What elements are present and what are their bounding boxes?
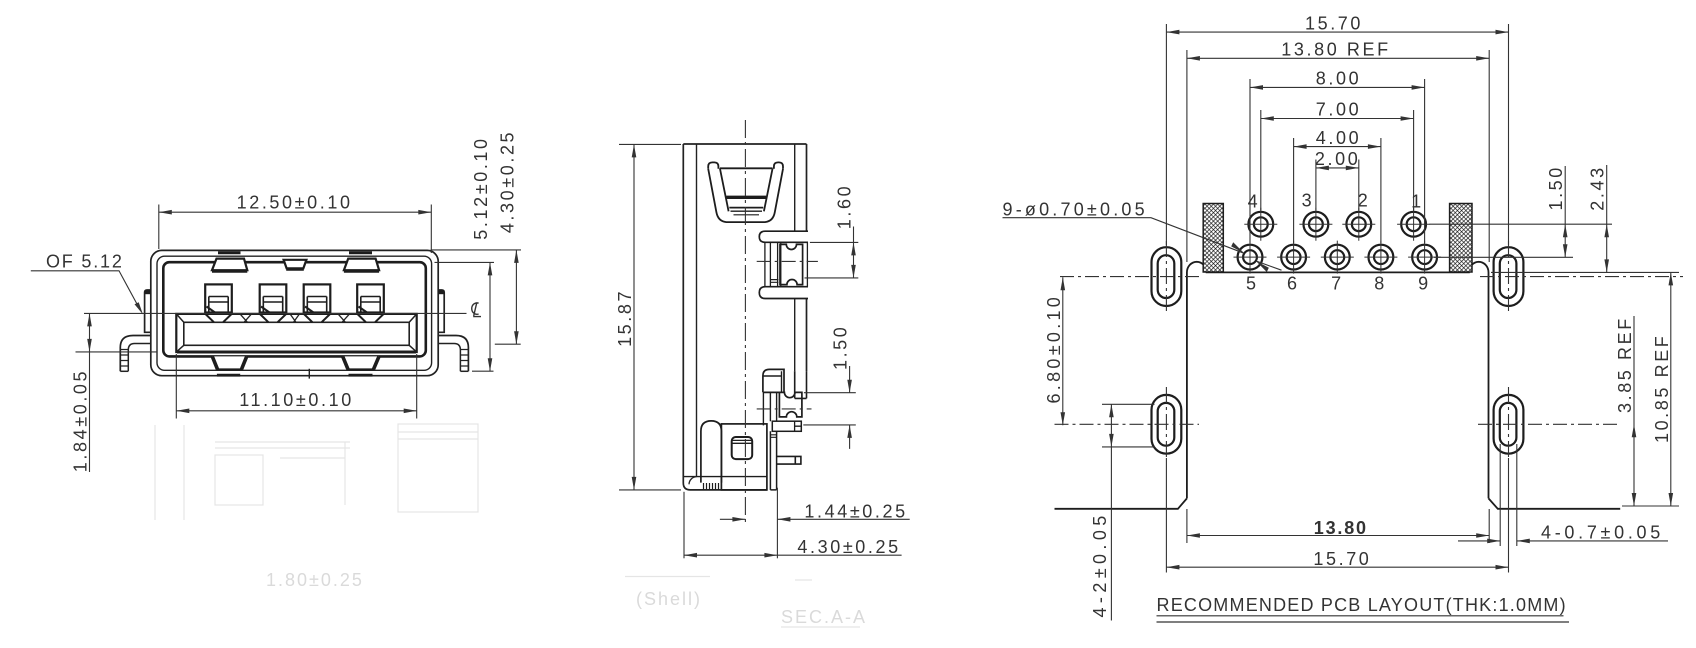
- svg-text:3: 3: [1302, 191, 1315, 211]
- body right edge outer: [806, 144, 808, 371]
- svg-text:1.84±0.05: 1.84±0.05: [71, 369, 91, 472]
- leader OF 5.12: [31, 271, 141, 311]
- base knurl ticks: [704, 483, 719, 490]
- bottom tab 1: [212, 356, 246, 369]
- leader 9-dia: [1003, 218, 1282, 271]
- dim 2.00 line: [1316, 167, 1359, 169]
- arrows 13.80 REF: [1187, 56, 1200, 61]
- ext lines 8.00: [1250, 79, 1425, 243]
- svg-text:2.00: 2.00: [1315, 149, 1360, 169]
- svg-text:13.80: 13.80: [1314, 518, 1368, 538]
- CL symbol: [472, 303, 481, 317]
- svg-text:1.50: 1.50: [1546, 165, 1566, 210]
- svg-text:11.10±0.10: 11.10±0.10: [239, 390, 354, 410]
- svg-text:3.85 REF: 3.85 REF: [1615, 316, 1635, 413]
- dim 4.30 extension line: [495, 343, 521, 345]
- mount foot left: [120, 336, 151, 372]
- svg-text:15.70: 15.70: [1313, 549, 1371, 569]
- clip2 left tab: [763, 369, 784, 392]
- svg-text:10.85 REF: 10.85 REF: [1652, 334, 1672, 443]
- bottom shell dash right: [349, 374, 373, 377]
- PCB LAYOUT VIEW: [1055, 204, 1621, 509]
- dim 1.84 extension line: [76, 351, 158, 353]
- arrows 15.70 top: [1166, 30, 1179, 35]
- clip1 top pill: [759, 231, 808, 242]
- arrows 8.00: [1250, 85, 1263, 90]
- body top edge: [683, 143, 806, 145]
- arrows 2.00: [1316, 166, 1329, 171]
- clip1 step lines: [770, 280, 778, 283]
- svg-text:6: 6: [1287, 273, 1300, 293]
- clip1 verticals: [765, 242, 808, 286]
- centerline mid ovals: [1055, 423, 1621, 425]
- arrows 1.44 (outside): [732, 517, 745, 522]
- latch cup band: [727, 196, 767, 199]
- SIDE DIMENSIONS: [619, 144, 910, 558]
- svg-text:7.00: 7.00: [1316, 100, 1361, 120]
- dim 3.85 line: [1633, 316, 1635, 506]
- pin 7 hole: [1321, 241, 1354, 274]
- side tab right: [438, 290, 444, 332]
- centerline top ovals vertical: [1166, 241, 1508, 315]
- arrow OF leader: [135, 302, 144, 314]
- svg-text:4.30±0.25: 4.30±0.25: [497, 130, 517, 233]
- board edge chamfer left: [1055, 498, 1187, 508]
- arrows 4.00: [1294, 144, 1307, 149]
- svg-text:13.80 REF: 13.80 REF: [1281, 40, 1390, 60]
- dim 6.80 line: [1062, 277, 1064, 425]
- centerline top ovals: [1060, 276, 1683, 278]
- ghost marks (faint print-through): [155, 424, 860, 627]
- top shell dash left: [218, 251, 241, 254]
- latch cup bottom lines: [729, 207, 763, 209]
- contact pin 1: [205, 284, 232, 312]
- arrows 2.43: [1604, 224, 1609, 237]
- arrows 12.50: [159, 210, 172, 215]
- ext lines 7.00: [1261, 110, 1414, 211]
- svg-text:4-0.7±0.05: 4-0.7±0.05: [1541, 522, 1664, 542]
- svg-text:9: 9: [1418, 273, 1431, 293]
- svg-text:1: 1: [1411, 192, 1424, 212]
- svg-text:2: 2: [1358, 191, 1371, 211]
- svg-text:1.50: 1.50: [831, 325, 851, 370]
- dim 7.00 line: [1261, 118, 1414, 120]
- arrows 1.50s (outside): [847, 380, 852, 393]
- tongue inner bevel: [184, 322, 409, 345]
- dim 4.30s extension line: [683, 492, 685, 559]
- top shell dash right: [349, 251, 372, 254]
- svg-text:4.00: 4.00: [1316, 128, 1361, 148]
- pin 3 hole: [1299, 208, 1332, 241]
- arrows 9-dia leader: [1231, 242, 1244, 253]
- base inner corner: [689, 477, 697, 485]
- svg-text:12.50±0.10: 12.50±0.10: [237, 193, 353, 213]
- svg-text:7: 7: [1331, 273, 1344, 293]
- dim 1.50s line: [849, 366, 851, 449]
- svg-text:1.60: 1.60: [835, 184, 855, 229]
- dim 13.80 REF line: [1187, 57, 1489, 59]
- arrows 10.85: [1669, 272, 1674, 285]
- base line: [684, 476, 767, 478]
- clip1 bottom pill: [759, 287, 808, 299]
- top tab 1: [212, 259, 247, 272]
- dim 12.50 extension lines: [159, 205, 432, 254]
- dim 1.60 extension lines: [805, 242, 859, 278]
- shell outer rect: [151, 250, 438, 375]
- dim 4.30s line: [684, 554, 902, 556]
- arrows 15.87: [632, 144, 637, 157]
- clip1 cavity: [780, 244, 803, 284]
- pin 4 hole: [1244, 208, 1277, 241]
- arrows 7.00: [1261, 116, 1274, 121]
- dim 1.44 line: [720, 518, 910, 520]
- dim 5.12 line: [489, 262, 491, 371]
- arrows 4.30: [514, 250, 519, 263]
- contact pin 2: [260, 284, 287, 312]
- svg-text:OF 5.12: OF 5.12: [46, 252, 124, 272]
- pin 5 hole: [1234, 241, 1267, 274]
- dim 15.87 extension lines: [619, 144, 681, 490]
- tongue outer: [176, 314, 416, 352]
- ext lines 4.00: [1294, 138, 1381, 243]
- dome: [701, 421, 722, 483]
- ext line board edge right: [1491, 271, 1679, 273]
- dim 4-0.7 line: [1458, 540, 1668, 542]
- dim 13.80 bottom line: [1187, 535, 1489, 537]
- dim 1.50p line: [1564, 166, 1566, 257]
- clip2 cavity: [763, 392, 802, 417]
- arrows 11.10: [176, 409, 189, 414]
- shell middle rect: [157, 256, 432, 370]
- svg-text:8: 8: [1374, 273, 1387, 293]
- svg-text:6.80±0.10: 6.80±0.10: [1044, 294, 1064, 404]
- dim 11.10 extension lines: [176, 354, 416, 419]
- centerline mid ovals vertical: [1166, 387, 1508, 458]
- arrows 6.80: [1061, 277, 1066, 290]
- dim 12.50 line: [159, 211, 432, 213]
- latch cup outer sides: [708, 169, 783, 222]
- title underline: [1157, 616, 1570, 622]
- svg-text:4: 4: [1248, 192, 1261, 212]
- ext lines slot width: [1500, 444, 1517, 546]
- pin strip: [770, 431, 776, 490]
- svg-text:(Shell): (Shell): [636, 589, 702, 609]
- latch cup inner trapezoid: [720, 168, 773, 211]
- dim 5.12 extension lines: [431, 250, 522, 371]
- mount slot top-left: [1152, 247, 1182, 306]
- ext lines 2.00: [1316, 160, 1359, 211]
- dim 11.10 line: [176, 410, 416, 412]
- hatched pad left: [1203, 204, 1223, 273]
- block slot: [732, 437, 753, 459]
- contact pin 3: [304, 284, 331, 312]
- shell window opening: [163, 262, 426, 356]
- clip2 centerline: [757, 408, 812, 410]
- dim 15.87 line: [633, 144, 635, 490]
- arrows 1.84: [87, 313, 92, 326]
- bottom tab 2: [343, 356, 379, 369]
- dim 1.84 line: [89, 313, 91, 472]
- board edge outline: [1187, 262, 1489, 499]
- latch cup left ear: [708, 162, 718, 168]
- ext lines 15.70 top: [1166, 24, 1508, 245]
- tongue bottom heavy edge: [177, 351, 416, 354]
- mount slot mid-left: [1152, 395, 1182, 454]
- arrows 1.50p: [1563, 224, 1568, 237]
- svg-text:15.70: 15.70: [1305, 13, 1363, 33]
- ext line pin9 row right: [1434, 256, 1573, 258]
- top tab 2 (center keystone): [284, 260, 307, 270]
- arrows 3.85: [1632, 424, 1637, 437]
- tongue notches under pins: [205, 314, 383, 322]
- svg-text:9-ø0.70±0.05: 9-ø0.70±0.05: [1003, 200, 1148, 220]
- FRONT VIEW: [84, 250, 481, 378]
- centerline horizontal: [84, 312, 467, 314]
- mount slot mid-right: [1494, 395, 1524, 454]
- ext lines mid ovals to 15.70 bottom: [1166, 458, 1508, 573]
- dim 1.44 extension line: [776, 488, 778, 559]
- mount foot right: [438, 336, 468, 372]
- tongue facet diagonals: [240, 314, 350, 322]
- clip2 bottom bar: [772, 421, 801, 431]
- ext lines 13.80 REF: [1187, 50, 1489, 262]
- bottom center tick: [308, 369, 310, 379]
- latch cup right ear: [774, 162, 783, 168]
- svg-text:RECOMMENDED PCB LAYOUT(THK:1.0: RECOMMENDED PCB LAYOUT(THK:1.0MM): [1157, 595, 1567, 615]
- PCB DIMENSIONS: [1003, 24, 1684, 621]
- arrows 5.12: [488, 262, 493, 275]
- ext lines slot length left: [1102, 404, 1155, 447]
- svg-text:4-2±0.05: 4-2±0.05: [1090, 511, 1110, 617]
- mount slot top-right: [1494, 247, 1524, 306]
- svg-text:5: 5: [1246, 273, 1259, 293]
- ext line bottom right: [1622, 505, 1679, 507]
- dim 4.00 line: [1294, 146, 1381, 148]
- dim 2.43 line: [1606, 165, 1608, 272]
- svg-text:1.44±0.25: 1.44±0.25: [804, 501, 907, 521]
- dim 1.60 line: [853, 227, 855, 278]
- body left edge inner: [696, 144, 698, 477]
- board edge chamfer right: [1489, 498, 1621, 508]
- arrows 4-0.7 (outside): [1487, 539, 1500, 544]
- svg-text:15.87: 15.87: [615, 289, 635, 347]
- contact pin 4: [357, 284, 384, 312]
- dim 4.30 line: [515, 250, 517, 344]
- arrows 1.60: [851, 242, 856, 255]
- through pin: [777, 456, 801, 464]
- pin 2 hole: [1342, 208, 1375, 241]
- dim 4-2 line: [1110, 404, 1112, 620]
- clip1 centerline: [757, 260, 818, 262]
- side centerline vertical: [744, 120, 746, 524]
- shell edge terminal: [795, 371, 807, 398]
- foot block: [721, 424, 767, 490]
- arrows 4-2: [1109, 404, 1114, 417]
- SIDE VIEW: [683, 120, 818, 524]
- svg-text:SEC.A-A: SEC.A-A: [781, 607, 867, 627]
- svg-text:1.80±0.25: 1.80±0.25: [266, 570, 364, 590]
- ext lines board edges bottom: [1187, 509, 1489, 543]
- dim 15.70 top line: [1166, 31, 1508, 33]
- side tab left: [145, 290, 151, 332]
- pin 6 hole: [1277, 241, 1310, 274]
- svg-text:5.12±0.10: 5.12±0.10: [471, 136, 491, 239]
- pin 8 hole: [1364, 241, 1397, 274]
- svg-text:2.43: 2.43: [1588, 165, 1608, 210]
- svg-text:4.30±0.25: 4.30±0.25: [797, 537, 900, 557]
- body left edge outer: [683, 144, 767, 490]
- tongue corner bevels: [176, 314, 416, 352]
- arrows 13.80 bottom: [1187, 533, 1200, 538]
- dim 8.00 line: [1250, 86, 1425, 88]
- FRONT DIMENSIONS: [31, 205, 521, 473]
- dim 1.50s extension lines: [803, 393, 856, 425]
- pin 9 hole: [1408, 241, 1441, 274]
- hatched pad right: [1450, 204, 1472, 273]
- arrows 4.30s: [684, 553, 697, 558]
- pin 1 hole: [1397, 208, 1430, 241]
- dim 15.70 bottom line: [1166, 566, 1508, 568]
- dim 10.85 line: [1670, 272, 1672, 506]
- top tab 3: [344, 259, 379, 272]
- bottom shell dash left: [217, 374, 240, 377]
- ext line pin1 row right: [1430, 223, 1613, 225]
- arrows 15.70 bottom: [1166, 565, 1179, 570]
- body right edge inner: [794, 144, 796, 371]
- svg-text:8.00: 8.00: [1316, 69, 1361, 89]
